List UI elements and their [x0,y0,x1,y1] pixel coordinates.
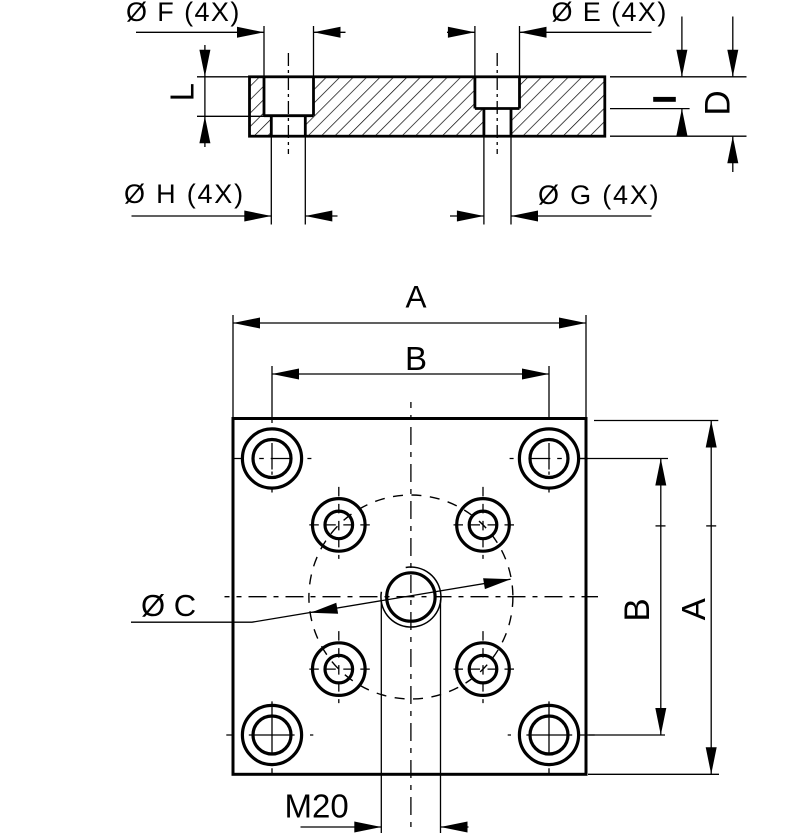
dimension A (right) lines and arrows [588,421,719,775]
svg-text:Ø E (4X): Ø E (4X) [552,0,668,27]
svg-text:M20: M20 [285,788,349,825]
dimension G lines and arrows [450,136,652,224]
svg-text:D: D [699,90,738,115]
right hole centerline (section) [496,53,498,154]
corner counterbored hole top-right [510,429,588,493]
dimension L lines and arrows [197,45,266,147]
corner counterbored hole top-left [233,429,312,493]
bolt circle (dashed) [309,495,513,699]
dimension B (top) lines and arrows [272,366,549,423]
dimension B (right) lines and arrows [580,459,668,736]
central tapped hole M20: major thread arc [381,567,441,627]
svg-text:L: L [164,83,201,101]
dimension C leader line and arrows [131,579,511,622]
section view hatched plate body [250,77,605,136]
right counterbored hole outline (section) [475,77,520,136]
plan view plate outline [233,419,586,775]
plan main vertical centerline [410,402,412,833]
dimension A (top) lines and arrows [233,315,586,419]
left hole centerline (section) [287,53,289,154]
section plate outline [250,77,605,136]
plan main horizontal centerline [225,596,599,598]
svg-text:Ø F (4X): Ø F (4X) [126,0,241,27]
svg-text:B: B [618,598,657,621]
corner counterbored hole bottom-left [226,701,313,773]
central tapped hole M20: minor circle [387,573,435,621]
dimension F lines and arrows [136,26,346,77]
svg-text:B: B [405,340,427,377]
dimension I lines and arrows [610,17,747,136]
svg-text:Ø H (4X): Ø H (4X) [124,179,245,209]
inner counterbored hole top-left [309,487,374,559]
dimension M20 lines and arrows [301,600,469,833]
corner counterbored hole bottom-right [508,701,595,773]
inner counterbored hole top-right [454,487,519,559]
dimension I label (rotated) [653,97,676,102]
left counterbored hole outline (section) [264,77,314,136]
dimension D lines and arrows [610,17,747,173]
svg-text:Ø C: Ø C [141,588,196,623]
svg-text:Ø G (4X): Ø G (4X) [538,180,660,210]
svg-text:A: A [405,279,426,315]
svg-text:A: A [675,598,712,620]
inner counterbored hole bottom-left [309,631,374,703]
dimension E lines and arrows [447,26,652,77]
inner counterbored hole bottom-right [454,631,519,703]
dimension H lines and arrows [132,136,338,224]
